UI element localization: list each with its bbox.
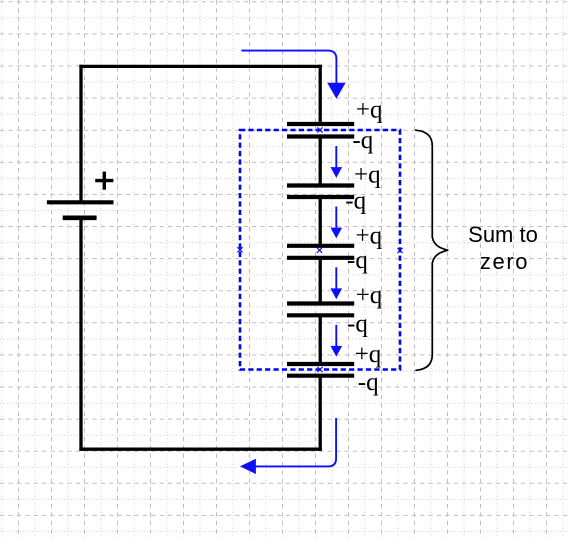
capacitor C4 top plate	[287, 301, 354, 305]
wire C1-C2	[319, 137, 322, 186]
svg-text:-q: -q	[347, 311, 368, 338]
battery B1 positive plate	[47, 200, 114, 204]
svg-text:+q: +q	[356, 223, 383, 250]
battery B1 negative plate	[63, 216, 97, 221]
wire right upper	[319, 65, 322, 124]
handle x bottom-center	[317, 367, 322, 372]
current arrow bottom (return)	[240, 418, 336, 474]
wire bottom	[79, 448, 321, 451]
handle x left-center	[237, 247, 242, 252]
svg-text:-q: -q	[352, 127, 373, 154]
charge arrow C1-C2	[331, 146, 343, 178]
charge arrow C4-C5	[331, 325, 343, 357]
capacitor C2 top plate	[287, 183, 354, 187]
svg-text:+q: +q	[356, 97, 383, 124]
current arrow top (into C1)	[241, 51, 345, 99]
svg-text:+q: +q	[356, 282, 383, 309]
capacitor C5 top plate	[287, 362, 354, 366]
capacitor C1 bottom plate	[287, 134, 354, 138]
annotation Sum to zero	[468, 222, 538, 274]
svg-text:zero: zero	[480, 249, 529, 274]
handle x center	[317, 248, 322, 253]
capacitor C5 bottom plate	[287, 374, 354, 378]
charge arrow C2-C3	[331, 207, 343, 239]
svg-text:+q: +q	[354, 162, 381, 189]
svg-text:Sum to: Sum to	[468, 222, 538, 247]
capacitor C1 top plate	[287, 122, 354, 126]
svg-text:-q: -q	[345, 188, 366, 215]
charge arrow C3-C4	[331, 267, 343, 299]
svg-text:-q: -q	[347, 247, 368, 274]
wire top	[79, 65, 321, 68]
svg-text:-q: -q	[358, 369, 379, 396]
wire right lower	[319, 376, 322, 451]
capacitor C4 bottom plate	[287, 313, 354, 317]
handle x top-center	[317, 127, 322, 132]
brace (right curly bracket)	[416, 130, 449, 370]
capacitor C2 bottom plate	[287, 195, 354, 199]
wire left upper (battery top lead)	[79, 65, 82, 203]
wire C2-C3	[319, 197, 322, 246]
wire left lower (battery bottom lead)	[79, 218, 82, 451]
capacitor C3 bottom plate	[287, 256, 354, 260]
battery polarity label +	[95, 172, 113, 190]
wire C3-C4	[319, 258, 322, 304]
handle x right-center	[397, 248, 402, 253]
svg-text:+q: +q	[355, 341, 382, 368]
dashed selection rectangle (sum-to-zero region)	[240, 130, 400, 370]
wire C4-C5	[319, 315, 322, 364]
capacitor C3 top plate	[287, 244, 354, 248]
